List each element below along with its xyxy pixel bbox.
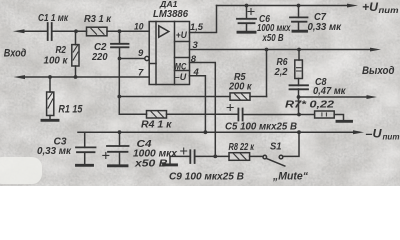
resistor R8 — [229, 153, 250, 161]
wire input bottom rail to pin 7 — [23, 76, 149, 78]
wire C2 bottom to pin 9 — [120, 47, 145, 58]
svg-text:9: 9 — [138, 48, 144, 59]
svg-text:–U: –U — [366, 128, 383, 140]
node H (C7 tap) — [297, 4, 301, 8]
svg-text:220: 220 — [91, 52, 108, 63]
svg-text:0,33 мк: 0,33 мк — [37, 146, 72, 157]
capacitor C2 — [111, 44, 129, 48]
svg-text:8: 8 — [191, 54, 197, 65]
node P (switch on -U rail) — [297, 130, 301, 134]
wire feedback vertical — [266, 50, 268, 97]
svg-text:4: 4 — [193, 67, 200, 78]
wire pin 3 output line — [190, 49, 374, 51]
capacitor C4 — [119, 132, 121, 164]
capacitor C1 — [48, 23, 52, 40]
svg-text:–U: –U — [175, 72, 188, 83]
ground (C6) — [238, 31, 255, 34]
wire pin9 node down to R4 — [119, 59, 146, 115]
node M (pin4 on -U rail) — [204, 130, 208, 134]
svg-text:C9 100 мкх25 В: C9 100 мкх25 В — [169, 171, 244, 182]
capacitor C5 — [238, 109, 242, 121]
svg-text:7: 7 — [138, 67, 144, 78]
svg-text:S1: S1 — [270, 142, 282, 153]
svg-text:1,5: 1,5 — [190, 22, 204, 33]
svg-text:Вход: Вход — [4, 48, 27, 60]
node C (pin9 net junction) — [118, 57, 122, 61]
wire mute line — [195, 155, 229, 157]
-U terminal arrow — [353, 130, 364, 134]
svg-text:Выход: Выход — [362, 65, 395, 77]
ground (R7) — [337, 120, 352, 123]
svg-text:0,33 мк: 0,33 мк — [308, 22, 342, 33]
wire C2 drop — [119, 31, 121, 44]
wire input top to C1 — [22, 30, 47, 32]
svg-text:R2: R2 — [56, 45, 67, 56]
node D (feedback tee) — [117, 95, 121, 99]
node F (R2 bottom tee) — [74, 75, 78, 79]
capacitor C3 — [84, 132, 86, 164]
input terminal arrow bottom — [14, 75, 26, 79]
op-amp U1 DA1 LM3886 box — [149, 22, 189, 85]
svg-text:LM3886: LM3886 — [153, 9, 188, 20]
ground (C7) — [293, 30, 307, 33]
svg-text:0,47 мк: 0,47 мк — [313, 86, 346, 97]
svg-text:R7* 0,22: R7* 0,22 — [285, 100, 335, 111]
wire output return line — [299, 96, 370, 98]
wire C5 to node L — [243, 114, 314, 116]
wire pin 1,5 to top rail — [190, 6, 217, 33]
resistor R4 — [147, 111, 167, 118]
node B (C2 top junction) — [118, 29, 122, 33]
svg-text:R3 1 к: R3 1 к — [84, 14, 112, 25]
svg-text:3: 3 — [193, 40, 199, 51]
node K (output return tee) — [297, 95, 301, 99]
svg-text:х50 В: х50 В — [262, 33, 284, 44]
wire R4 to C5 — [167, 113, 238, 115]
wire feedback horizontal — [119, 96, 266, 98]
node A (R2 top junction) — [74, 29, 78, 33]
svg-text:R1 15: R1 15 — [58, 103, 83, 115]
wire R7 to ground — [334, 115, 343, 121]
node O (pin8 on mute line) — [213, 155, 217, 159]
capacitor C7 — [298, 6, 300, 31]
svg-text:200 к: 200 к — [228, 82, 252, 93]
svg-text:„Mute“: „Mute“ — [272, 170, 308, 182]
svg-text:2,2: 2,2 — [274, 67, 288, 78]
svg-text:C2: C2 — [94, 42, 107, 53]
svg-text:х50 В: х50 В — [134, 158, 168, 169]
wire -U rail — [78, 131, 356, 133]
output terminal arrow — [370, 48, 381, 52]
wire pin 8 mute drop — [190, 63, 216, 157]
ground (C3) — [77, 164, 93, 167]
resistor R6 — [298, 50, 300, 61]
svg-text:МС: МС — [175, 62, 187, 73]
resistor R3 — [87, 27, 108, 36]
wire +U top rail — [217, 5, 351, 7]
ground (C4) — [109, 164, 128, 167]
svg-text:пит: пит — [383, 132, 400, 142]
capacitor C8 — [298, 79, 300, 115]
svg-text:R8 22 к: R8 22 к — [229, 142, 255, 153]
svg-text:100 к: 100 к — [44, 56, 69, 67]
svg-text:пит: пит — [379, 5, 399, 15]
capacitor C9 — [190, 150, 194, 163]
paper background — [0, 0, 400, 186]
input terminal arrow top — [13, 29, 25, 33]
svg-text:10: 10 — [134, 21, 144, 32]
wire switch to -U rail — [283, 132, 299, 156]
wire R8 to switch — [250, 155, 263, 157]
svg-text:C5 100 мкх25 В: C5 100 мкх25 В — [225, 121, 297, 132]
wire C1 to node A — [52, 30, 87, 32]
svg-text:ДА1: ДА1 — [159, 0, 178, 9]
node N (C4 on -U rail) — [118, 130, 122, 134]
resistor R7 — [315, 111, 335, 118]
svg-text:+U: +U — [176, 30, 188, 41]
op-amp triangle symbol — [159, 26, 169, 37]
output return terminal arrow — [367, 95, 378, 99]
node G (C6 tap) — [245, 4, 249, 8]
ground (C9) — [164, 163, 177, 166]
node L (C5/R7 junction) — [297, 113, 301, 117]
wire pin 4 to negative rail — [190, 76, 206, 132]
svg-text:C1 1 мк: C1 1 мк — [38, 13, 69, 24]
svg-text:+U: +U — [362, 2, 379, 14]
node J (Zobel tap on output) — [297, 48, 301, 52]
pin 9 inversion circle — [145, 56, 149, 60]
resistor R5 — [230, 93, 250, 100]
resistor R2 — [75, 31, 77, 77]
wire R3 to pin 10 — [107, 30, 149, 32]
resistor R1 — [49, 77, 51, 119]
ground (R1) — [42, 119, 58, 122]
wire C9 to ground — [170, 156, 190, 163]
capacitor C6 — [246, 6, 248, 32]
node E (R1 tee) — [48, 75, 52, 79]
node I (feedback tap on output) — [265, 48, 269, 52]
switch S1 — [263, 155, 267, 159]
+U terminal arrow — [347, 4, 358, 8]
svg-text:R4 1 к: R4 1 к — [141, 119, 172, 130]
